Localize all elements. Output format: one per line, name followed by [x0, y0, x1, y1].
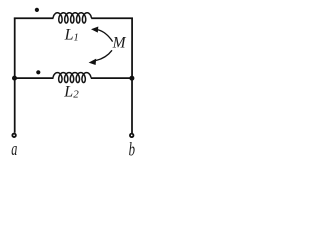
wire middle-right segment — [91, 77, 132, 79]
polarity dot L1 — [35, 8, 39, 12]
svg-text:L2: L2 — [63, 83, 79, 100]
svg-text:a: a — [11, 140, 17, 160]
terminal a — [12, 134, 16, 138]
junction node left — [12, 76, 17, 81]
svg-text:b: b — [129, 141, 135, 161]
inductor L2 — [53, 73, 91, 83]
wire left vertical — [14, 18, 16, 133]
wire top-right segment — [91, 17, 133, 19]
wire top-left segment — [14, 17, 54, 19]
inductor L1 — [53, 13, 92, 23]
terminal b — [130, 134, 134, 138]
wire middle-left segment — [14, 77, 54, 79]
mutual coupling arrow to L2 — [96, 50, 112, 60]
junction node right — [129, 76, 134, 81]
svg-text:M: M — [112, 35, 127, 52]
polarity dot L2 — [36, 70, 40, 74]
wire right vertical — [131, 18, 133, 134]
mutual coupling arrow to L1 — [98, 30, 113, 42]
svg-text:L1: L1 — [64, 27, 79, 44]
